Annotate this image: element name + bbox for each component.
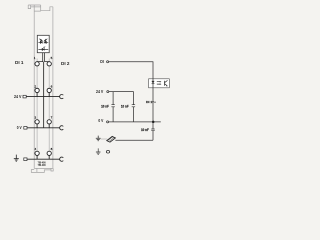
LED indicator box bbox=[37, 35, 49, 52]
capacitor C2 plates bbox=[132, 105, 135, 107]
clamp column line left bbox=[36, 59, 38, 159]
capacitor C3 plates bbox=[151, 129, 154, 131]
legend contact oval bbox=[106, 151, 109, 154]
optocoupler U1 box bbox=[149, 79, 170, 88]
earth symbol left bbox=[14, 155, 19, 162]
terminal 3 circle bbox=[35, 120, 39, 124]
capacitor C1 plates bbox=[111, 105, 114, 107]
legend earth symbol bbox=[96, 148, 101, 154]
schematic: DI terminal circle bbox=[107, 61, 109, 63]
terminal 6 circle bbox=[47, 88, 51, 92]
svg-text:DI 1: DI 1 bbox=[15, 60, 24, 65]
schematic: 0V terminal circle bbox=[107, 121, 109, 123]
stub 4 bbox=[36, 155, 38, 159]
svg-text:24 V: 24 V bbox=[96, 89, 103, 94]
svg-text:0 V: 0 V bbox=[98, 118, 103, 123]
wire LED box to DI1 terminal bbox=[37, 53, 43, 62]
earth plug bbox=[24, 158, 27, 161]
wire below optocoupler bbox=[152, 88, 154, 122]
24V jumper contact arc bbox=[60, 95, 64, 99]
junction node bbox=[152, 121, 155, 124]
terminal 1 circle bbox=[35, 62, 39, 66]
svg-text:24 V: 24 V bbox=[14, 94, 22, 99]
stub 7 bbox=[48, 124, 50, 128]
0V row line bbox=[27, 127, 60, 129]
stub 3 bbox=[36, 124, 38, 128]
module bottom profile bbox=[31, 168, 53, 172]
terminal 5 circle bbox=[47, 62, 51, 66]
0V plug bbox=[24, 127, 27, 130]
capacitor C3 branch bbox=[152, 122, 154, 140]
terminal 7 circle bbox=[47, 120, 51, 124]
svg-text:0 V: 0 V bbox=[17, 125, 22, 130]
link line bbox=[101, 138, 108, 140]
optocoupler LED bbox=[152, 79, 154, 88]
stub 2 bbox=[36, 93, 38, 97]
svg-text:10 nF: 10 nF bbox=[121, 105, 129, 109]
optocoupler phototransistor bbox=[165, 80, 168, 86]
0V jumper contact arc bbox=[60, 126, 64, 130]
earth rail bottom bbox=[115, 139, 153, 141]
terminal 4 circle bbox=[35, 151, 39, 155]
svg-text:DI 1: DI 1 bbox=[146, 100, 152, 104]
module top profile hook bbox=[41, 7, 53, 11]
capacitor C1 branch bbox=[112, 92, 114, 122]
schematic: 24V rail bbox=[109, 92, 134, 105]
clamp column line right bbox=[48, 59, 50, 159]
DIN rail contact symbol bbox=[107, 136, 116, 142]
stub 6 bbox=[48, 93, 50, 97]
wire LED box to DI2 terminal bbox=[45, 53, 50, 62]
module body left edge bbox=[33, 5, 35, 168]
24V plug bbox=[23, 95, 26, 98]
24V row line bbox=[26, 96, 59, 98]
earth row line bbox=[27, 158, 60, 160]
terminal 8 circle bbox=[47, 151, 51, 155]
terminal 2 circle bbox=[35, 88, 39, 92]
LED symbol channel 1 bbox=[38, 39, 42, 44]
capacitor C2 branch lower bbox=[132, 107, 134, 122]
schematic: DI wire bbox=[109, 62, 153, 79]
schematic: 0V rail bbox=[109, 121, 161, 123]
svg-text:10 nF: 10 nF bbox=[141, 128, 149, 132]
chassis earth symbol bbox=[96, 136, 101, 141]
svg-text:753-400: 753-400 bbox=[38, 163, 46, 167]
earth jumper contact arc bbox=[60, 157, 64, 161]
arrowhead on DI wire bbox=[152, 101, 154, 103]
optocoupler arrows bbox=[157, 82, 160, 84]
stub 8 bbox=[48, 155, 50, 159]
module top profile latch bbox=[28, 5, 41, 11]
wire center down to 0V row bbox=[43, 62, 45, 128]
svg-text:DI: DI bbox=[100, 59, 104, 64]
svg-text:10 nF: 10 nF bbox=[101, 105, 109, 109]
LED symbol channel 2 bbox=[44, 39, 48, 44]
tick right of wire bbox=[154, 102, 155, 103]
LED symbol lower bbox=[38, 46, 48, 50]
schematic: 24V terminal circle bbox=[107, 91, 109, 93]
module body right edge bbox=[52, 7, 54, 169]
svg-text:DI 2: DI 2 bbox=[61, 61, 70, 66]
